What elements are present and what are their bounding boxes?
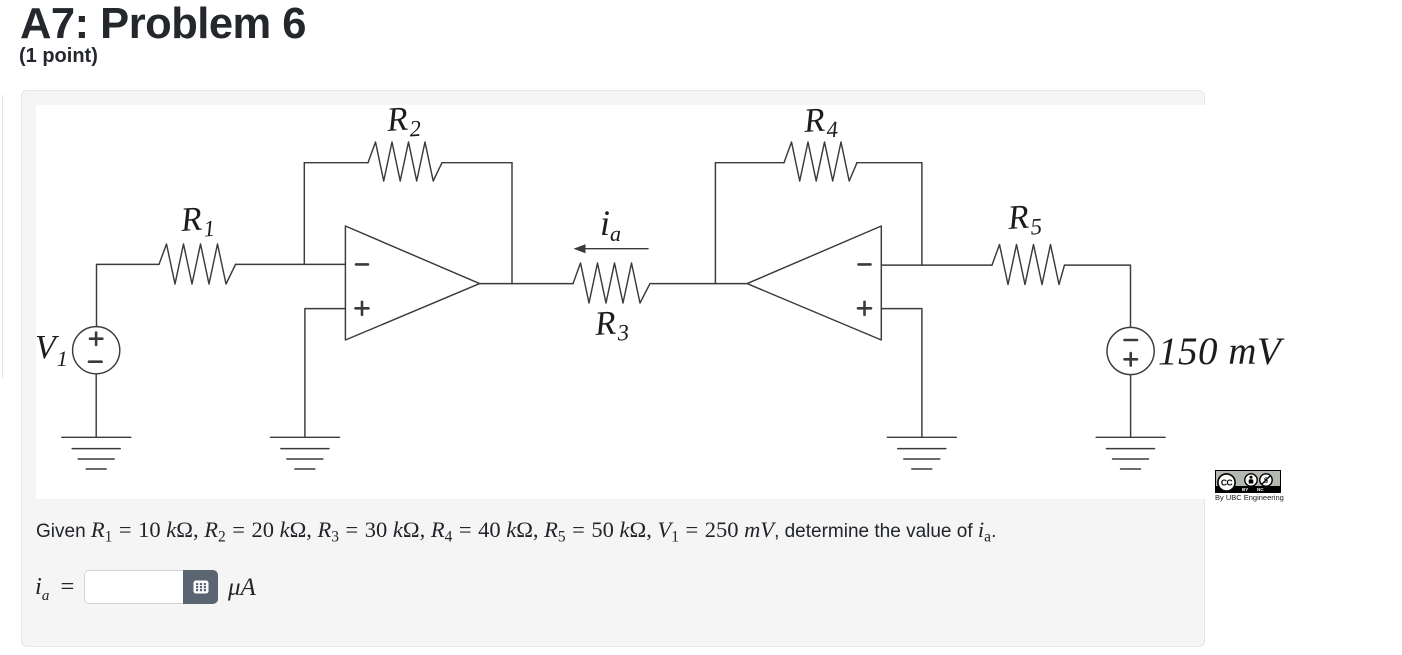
wire R4 to right vertical bbox=[857, 162, 922, 164]
voltage source 150mV bbox=[1107, 327, 1154, 374]
node: feedback tap vertical up bbox=[303, 163, 305, 265]
current arrow ia bbox=[574, 244, 649, 253]
svg-text:R3: R3 bbox=[593, 304, 630, 347]
vertical down to U2 minus input bbox=[921, 163, 923, 265]
faint page left border bbox=[2, 95, 3, 378]
ground under V1 bbox=[62, 437, 131, 469]
U2 plus input wire bbox=[881, 309, 922, 438]
outer gray problem panel bbox=[21, 90, 1205, 647]
resistor R1 bbox=[159, 244, 236, 284]
op-amp U2 (mirrored) bbox=[747, 226, 881, 340]
U1 minus sign bbox=[356, 263, 368, 266]
op-amp U1 bbox=[345, 226, 479, 340]
BY person circle bbox=[1244, 473, 1258, 487]
svg-text:ia: ia bbox=[600, 203, 621, 246]
wire R1 to op-amp minus input bbox=[236, 263, 346, 265]
wire source bottom to ground bbox=[1130, 375, 1132, 438]
ground under U2 plus input bbox=[887, 437, 956, 469]
given values text bbox=[36, 517, 996, 543]
svg-text:R1: R1 bbox=[179, 200, 216, 243]
wire R3 to U2 output bbox=[650, 283, 747, 285]
U1 plus input wire bbox=[305, 309, 346, 438]
resistor R4 bbox=[784, 142, 857, 181]
wire to R4 bbox=[715, 162, 784, 164]
R4 feedback tap vertical bbox=[714, 163, 716, 284]
U2 plus sign bbox=[858, 307, 871, 310]
feedback vertical down to output bbox=[511, 163, 513, 284]
NC circle bbox=[1259, 473, 1273, 487]
heading bbox=[20, 0, 306, 49]
voltage source V1 bbox=[73, 327, 120, 374]
input field with keypad button bbox=[84, 570, 218, 604]
U2 minus sign bbox=[859, 263, 871, 266]
CC BY-NC badge bbox=[1215, 470, 1281, 502]
svg-text:V1: V1 bbox=[35, 329, 68, 371]
ground under 150mV source bbox=[1096, 437, 1165, 469]
svg-text:R2: R2 bbox=[385, 100, 422, 143]
wire R5 to source bbox=[1065, 265, 1131, 327]
wire V1 bottom to ground bbox=[95, 374, 97, 438]
svg-text:R5: R5 bbox=[1006, 198, 1043, 241]
wire to R2 bbox=[304, 162, 368, 164]
wire V1 top to R1 bbox=[97, 264, 160, 326]
U1 output wire to R3 bbox=[480, 283, 573, 285]
U1 plus sign bbox=[356, 307, 369, 310]
wire R2 to feedback vertical bbox=[442, 162, 512, 164]
answer row bbox=[35, 573, 74, 605]
CC circle bbox=[1217, 473, 1236, 492]
resistor R2 bbox=[368, 142, 442, 181]
ground under U1 plus input bbox=[271, 437, 340, 469]
resistor R5 bbox=[992, 245, 1065, 285]
svg-text:150 mV: 150 mV bbox=[1158, 330, 1285, 373]
white schematic area bbox=[36, 105, 1205, 499]
U2 minus input wire through R5 node bbox=[881, 264, 992, 266]
svg-text:CC: CC bbox=[1221, 477, 1233, 487]
resistor R3 bbox=[573, 263, 650, 303]
svg-text:R4: R4 bbox=[802, 101, 839, 144]
